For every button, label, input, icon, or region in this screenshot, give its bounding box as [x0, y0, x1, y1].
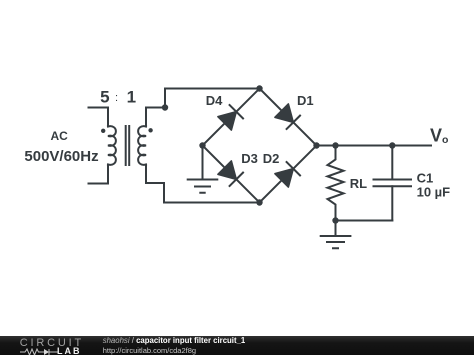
- diode D3 cathode bar: [229, 172, 244, 187]
- node dot RL bottom: [332, 217, 338, 223]
- svg-text:D1: D1: [297, 93, 314, 108]
- wire secondary top lead: [146, 108, 165, 127]
- node dot C1 top: [389, 142, 395, 148]
- svg-text:D4: D4: [206, 93, 223, 108]
- wire ground stem right: [335, 221, 337, 237]
- resistor RL: [328, 146, 344, 221]
- svg-text:1: 1: [127, 88, 136, 107]
- diode D4: [218, 112, 236, 130]
- wire to bridge bottom: [164, 202, 260, 204]
- node dot bridge left: [199, 142, 205, 148]
- wire secondary bottom lead: [146, 165, 164, 203]
- wire bottom right: [336, 220, 393, 222]
- diode D4 cathode bar: [229, 104, 244, 119]
- wire bridge edge left-top: [203, 89, 260, 146]
- svg-text:D2: D2: [263, 151, 280, 166]
- capacitor C1 bottom stub: [391, 186, 393, 220]
- wire ground stem left: [202, 146, 204, 180]
- svg-text:C1: C1: [417, 171, 434, 186]
- node dot bridge top: [256, 85, 262, 91]
- svg-text:AC: AC: [51, 129, 69, 143]
- transformer secondary phase dot: [148, 128, 152, 132]
- ground right: [320, 236, 352, 248]
- footer url line: [103, 347, 196, 355]
- transformer T1 secondary winding: [138, 126, 146, 165]
- svg-text:RL: RL: [350, 176, 367, 191]
- svg-text:D3: D3: [241, 151, 258, 166]
- footer title line: [103, 337, 246, 345]
- ground left: [187, 180, 219, 193]
- wire bridge edge bottom-right: [260, 146, 317, 203]
- node dot bridge right: [313, 142, 319, 148]
- node dot bridge bottom: [256, 199, 262, 205]
- node dot secondary top: [162, 104, 168, 110]
- diode D1 cathode bar: [286, 115, 301, 130]
- CircuitLab logo wordmark LAB: [57, 347, 82, 355]
- transformer T1 core: [126, 126, 130, 165]
- svg-text::: :: [115, 92, 118, 104]
- svg-text:Vo: Vo: [430, 126, 448, 147]
- footer bar: [0, 336, 474, 355]
- CircuitLab logo wordmark CIRCUIT: [20, 338, 84, 349]
- svg-text:500V/60Hz: 500V/60Hz: [24, 148, 98, 165]
- wire AC top stub to primary: [89, 108, 109, 127]
- capacitor C1 top stub: [391, 146, 393, 180]
- diode D2: [275, 169, 293, 187]
- svg-text:10 µF: 10 µF: [417, 184, 451, 199]
- CircuitLab logo squiggle: [20, 348, 60, 355]
- node dot RL top: [332, 142, 338, 148]
- wire bridge edge top-right: [260, 89, 317, 146]
- wire to bridge top: [165, 89, 260, 108]
- diode D1: [275, 104, 293, 122]
- wire output: [317, 145, 432, 147]
- diode D2 cathode bar: [286, 161, 301, 176]
- transformer primary phase dot: [101, 129, 105, 133]
- transformer T1 primary winding: [108, 126, 116, 165]
- wire bridge edge left-bottom: [203, 146, 260, 203]
- diode D3: [218, 161, 236, 179]
- capacitor C1 plates: [374, 180, 412, 187]
- svg-text:5: 5: [100, 88, 109, 107]
- wire AC bottom stub to primary: [89, 165, 109, 184]
